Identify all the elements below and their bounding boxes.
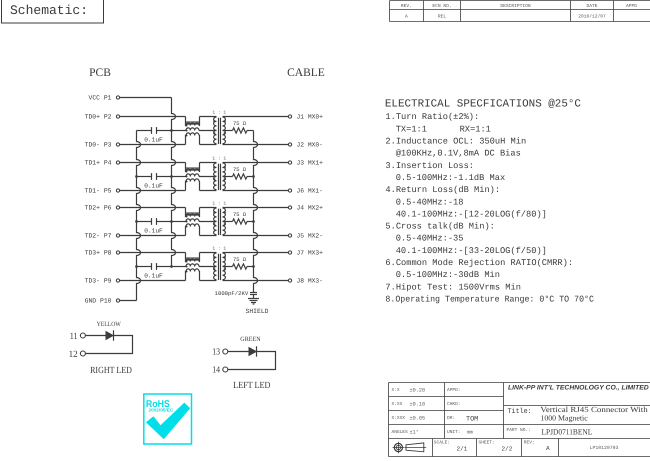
svg-text:X:XXX: X:XXX bbox=[392, 416, 406, 421]
svg-text:TOM: TOM bbox=[466, 415, 478, 423]
common-mode choke core (channel 2) bbox=[186, 167, 199, 170]
svg-text:2.Inductance OCL: 350uH Min: 2.Inductance OCL: 350uH Min bbox=[385, 137, 526, 147]
junction termination bus / resistor bbox=[252, 175, 255, 178]
svg-text:13: 13 bbox=[212, 348, 220, 358]
svg-text:2/2: 2/2 bbox=[502, 446, 513, 453]
svg-text:±0.05: ±0.05 bbox=[410, 415, 426, 421]
RoHS logo box bbox=[144, 394, 192, 444]
wire P-side bottom (channel 1) bbox=[120, 144, 186, 146]
svg-text:14: 14 bbox=[212, 366, 220, 376]
svg-text:CHKD:: CHKD: bbox=[447, 401, 461, 407]
svg-text:5.Cross talk(dB Min):: 5.Cross talk(dB Min): bbox=[385, 222, 494, 232]
choke winding top (channel 2) bbox=[185, 163, 188, 172]
junction vcc bus / center tap bbox=[170, 220, 173, 223]
svg-text:REV.: REV. bbox=[401, 3, 412, 9]
wire choke to transformer center tap (channel 3) bbox=[199, 221, 217, 223]
junction vcc bus / center tap bbox=[170, 175, 173, 178]
resistor 75 Ohm (channel 4) bbox=[233, 264, 248, 269]
capacitor 0.1uF (channel 1) bbox=[151, 127, 153, 134]
capacitor 0.1uF (channel 3) bbox=[151, 218, 153, 225]
wire secondary center tap to resistor (channel 3) bbox=[223, 221, 233, 223]
resistor 75 Ohm (channel 2) bbox=[233, 174, 248, 179]
svg-text:±1°: ±1° bbox=[410, 429, 419, 435]
wire cap to vcc bus (channel 3) bbox=[157, 221, 172, 223]
pin P10 terminal bbox=[116, 299, 119, 302]
pin J2 terminal (MX0-) bbox=[288, 143, 291, 146]
transformer polarity dots (channel 2) bbox=[213, 166, 215, 168]
wire P-side top (channel 3) bbox=[120, 207, 186, 209]
svg-text:LINK-PP INT’L TECHNOLOGY CO.,: LINK-PP INT’L TECHNOLOGY CO., LIMITED bbox=[508, 384, 649, 391]
svg-text:DESCRIPTION: DESCRIPTION bbox=[500, 3, 531, 9]
choke polarity dots (channel 4) bbox=[185, 260, 187, 262]
pin J6 terminal (MX1-) bbox=[288, 189, 291, 192]
svg-text:1 : 1: 1 : 1 bbox=[212, 201, 226, 207]
svg-text:DATE: DATE bbox=[586, 3, 597, 9]
svg-text:J7 MX3+: J7 MX3+ bbox=[297, 250, 324, 257]
wire choke to transformer bottom (channel 4) bbox=[200, 280, 217, 282]
transformer secondary winding (channel 2) bbox=[223, 163, 226, 190]
transformer primary winding (channel 3) bbox=[214, 208, 217, 235]
junction termination bus / resistor bbox=[252, 220, 255, 223]
svg-text:SHEET:: SHEET: bbox=[479, 440, 495, 446]
svg-text:40.1-100MHz:-[33-20LOG(f/50)]: 40.1-100MHz:-[33-20LOG(f/50)] bbox=[396, 246, 547, 256]
svg-text:REL: REL bbox=[438, 13, 447, 19]
svg-text:±0.20: ±0.20 bbox=[410, 387, 426, 393]
svg-text:YELLOW: YELLOW bbox=[97, 321, 122, 328]
wire cap to vcc bus (channel 2) bbox=[157, 176, 172, 178]
pin P1 terminal bbox=[116, 96, 119, 99]
wire choke to transformer center tap (channel 1) bbox=[199, 130, 217, 132]
svg-text:APPD:: APPD: bbox=[447, 388, 461, 393]
transformer polarity dots (channel 1) bbox=[213, 120, 215, 122]
vcc center-tap bus (vertical, hops over pin wires) bbox=[172, 98, 176, 267]
svg-text:DR:: DR: bbox=[447, 416, 455, 421]
revision table bbox=[390, 1, 650, 22]
svg-text:1 : 1: 1 : 1 bbox=[212, 156, 226, 162]
pin P6 terminal bbox=[116, 206, 119, 209]
svg-text:1 : 1: 1 : 1 bbox=[212, 246, 226, 252]
pin P3 terminal bbox=[116, 143, 119, 146]
pin J7 terminal (MX3+) bbox=[288, 251, 291, 254]
pin P9 terminal bbox=[116, 279, 119, 282]
wire P-side bottom (channel 4) bbox=[120, 280, 186, 282]
svg-text:Schematic:: Schematic: bbox=[10, 3, 88, 18]
wire choke to transformer bottom (channel 1) bbox=[200, 144, 217, 146]
svg-text:TD1+ P4: TD1+ P4 bbox=[85, 160, 112, 167]
svg-text:TX=1:1: TX=1:1 bbox=[396, 124, 427, 134]
svg-text:GND P10: GND P10 bbox=[85, 298, 112, 305]
svg-text:0.1uF: 0.1uF bbox=[144, 183, 163, 190]
choke winding top (channel 3) bbox=[185, 208, 188, 217]
svg-text:0.1uF: 0.1uF bbox=[144, 228, 163, 235]
svg-text:75 Ω: 75 Ω bbox=[233, 167, 247, 173]
pin J3 terminal (MX1+) bbox=[288, 161, 291, 164]
svg-text:J5 MX2-: J5 MX2- bbox=[297, 233, 323, 240]
wire choke to transformer top (channel 2) bbox=[200, 162, 217, 164]
common-mode choke core (channel 1) bbox=[186, 121, 199, 124]
junction gnd bus / cap line bbox=[135, 175, 138, 178]
pin P4 terminal bbox=[116, 161, 119, 164]
transformer core (channel 3) bbox=[218, 209, 220, 235]
junction vcc bus / center tap bbox=[170, 129, 173, 132]
pin J8 terminal (MX3-) bbox=[288, 279, 291, 282]
svg-text:A: A bbox=[405, 13, 408, 19]
svg-text:J4 MX2+: J4 MX2+ bbox=[297, 205, 324, 212]
wire P-side bottom (channel 3) bbox=[120, 235, 186, 237]
svg-text:VCC P1: VCC P1 bbox=[88, 95, 111, 102]
wire choke to transformer bottom (channel 3) bbox=[200, 235, 217, 237]
wire cap to gnd bus (channel 1) bbox=[137, 130, 152, 132]
svg-text:±0.10: ±0.10 bbox=[410, 401, 426, 407]
svg-text:TD3+ P8: TD3+ P8 bbox=[85, 250, 112, 257]
svg-text:0.5-100MHz:-30dB Min: 0.5-100MHz:-30dB Min bbox=[396, 270, 500, 280]
wire resistor to termination bus (channel 2) bbox=[247, 176, 254, 178]
svg-text:J3 MX1+: J3 MX1+ bbox=[297, 160, 324, 167]
wire resistor to termination bus (channel 4) bbox=[247, 266, 254, 268]
wire secondary top to J pin (channel 4) bbox=[223, 252, 289, 254]
svg-text:75 Ω: 75 Ω bbox=[233, 257, 247, 263]
common-mode choke core (channel 4) bbox=[186, 257, 199, 260]
choke winding top (channel 4) bbox=[185, 253, 188, 262]
pin P8 terminal bbox=[116, 251, 119, 254]
wire center tap line (channel 4) bbox=[172, 266, 187, 268]
svg-text:TD0- P3: TD0- P3 bbox=[85, 142, 112, 149]
transformer polarity dots (channel 3) bbox=[213, 211, 215, 213]
wire cap to shield ground bbox=[253, 295, 255, 299]
Schematic: label box bbox=[2, 0, 104, 23]
svg-text:1000pF/2KV: 1000pF/2KV bbox=[215, 290, 249, 297]
wire resistor to termination bus (channel 1) bbox=[247, 130, 254, 132]
junction termination bus / resistor bbox=[252, 265, 255, 268]
termination bus to shield cap (vertical, hops over J wires) bbox=[254, 131, 258, 293]
choke winding middle (channel 2) bbox=[186, 174, 199, 177]
resistor 75 Ohm (channel 1) bbox=[233, 128, 248, 133]
svg-text:2002/95/EC: 2002/95/EC bbox=[149, 408, 174, 413]
svg-text:ECN NO.: ECN NO. bbox=[432, 3, 451, 9]
wire pin 13 to LED anode bbox=[228, 351, 249, 353]
svg-text:J1 MX0+: J1 MX0+ bbox=[297, 114, 324, 121]
svg-text:1000 Magnetic: 1000 Magnetic bbox=[540, 414, 588, 423]
svg-text:0.1uF: 0.1uF bbox=[144, 137, 163, 144]
svg-text:J6 MX1-: J6 MX1- bbox=[297, 188, 323, 195]
wire GND P10 to gnd bus bbox=[120, 300, 137, 302]
svg-text:GREEN: GREEN bbox=[240, 336, 261, 343]
svg-text:RX=1:1: RX=1:1 bbox=[460, 124, 491, 134]
choke winding bottom (channel 4) bbox=[185, 272, 188, 281]
svg-text:Title:: Title: bbox=[508, 407, 532, 416]
junction gnd bus / cap line bbox=[135, 265, 138, 268]
svg-text:J2 MX0-: J2 MX0- bbox=[297, 142, 323, 149]
svg-text:A: A bbox=[546, 445, 550, 452]
transformer primary winding (channel 1) bbox=[214, 117, 217, 144]
transformer core (channel 1) bbox=[218, 118, 220, 144]
LED D2 green (diode) bbox=[249, 347, 257, 355]
wire VCC P1 to vcc bus bbox=[120, 97, 172, 99]
svg-text:ANGLES: ANGLES bbox=[392, 429, 409, 435]
wire cap to gnd bus (channel 2) bbox=[137, 176, 152, 178]
wire secondary bottom to J pin (channel 2) bbox=[223, 190, 289, 192]
svg-text:X:XX: X:XX bbox=[392, 402, 403, 407]
svg-text:LPJD0711BENL: LPJD0711BENL bbox=[542, 428, 593, 437]
wire choke to transformer top (channel 3) bbox=[200, 207, 217, 209]
wire center tap line (channel 3) bbox=[172, 221, 187, 223]
wire cap to gnd bus (channel 3) bbox=[137, 221, 152, 223]
wire P-side top (channel 2) bbox=[120, 162, 186, 164]
svg-text:TD0+ P2: TD0+ P2 bbox=[85, 114, 112, 121]
wire secondary top to J pin (channel 1) bbox=[223, 116, 289, 118]
svg-text:4.Return Loss(dB Min):: 4.Return Loss(dB Min): bbox=[385, 185, 500, 195]
wire pin 11 to LED anode bbox=[85, 335, 105, 337]
svg-text:UNIT:: UNIT: bbox=[447, 430, 461, 435]
wire choke to transformer bottom (channel 2) bbox=[200, 190, 217, 192]
transformer secondary winding (channel 1) bbox=[223, 117, 226, 144]
third-angle projection symbol bbox=[394, 443, 402, 451]
wire secondary center tap to resistor (channel 4) bbox=[223, 266, 233, 268]
svg-text:LP10120703: LP10120703 bbox=[590, 445, 619, 451]
transformer polarity dots (channel 4) bbox=[213, 256, 215, 258]
wire secondary top to J pin (channel 2) bbox=[223, 162, 289, 164]
LED D1 yellow (diode) bbox=[106, 331, 114, 339]
svg-text:CABLE: CABLE bbox=[287, 67, 325, 79]
wire secondary center tap to resistor (channel 2) bbox=[223, 176, 233, 178]
svg-text:J8 MX3-: J8 MX3- bbox=[297, 278, 323, 285]
svg-text:0.5-40MHz:-18: 0.5-40MHz:-18 bbox=[396, 197, 464, 207]
svg-text:8.Operating Temperature Range:: 8.Operating Temperature Range: 0°C TO 70… bbox=[385, 294, 594, 304]
common-mode choke core (channel 3) bbox=[186, 212, 199, 215]
pin J4 terminal (MX2+) bbox=[288, 206, 291, 209]
svg-text:TD3- P9: TD3- P9 bbox=[85, 278, 112, 285]
wire secondary bottom to J pin (channel 3) bbox=[223, 235, 289, 237]
wire LED cathode loop to pin 14 bbox=[228, 352, 276, 370]
wire P-side top (channel 4) bbox=[120, 252, 186, 254]
choke winding bottom (channel 1) bbox=[185, 136, 188, 145]
svg-text:2010/12/07: 2010/12/07 bbox=[578, 13, 606, 19]
choke winding middle (channel 3) bbox=[186, 219, 199, 222]
svg-text:@100KHz,0.1V,8mA DC Bias: @100KHz,0.1V,8mA DC Bias bbox=[396, 149, 521, 159]
wire resistor to termination bus (channel 3) bbox=[247, 221, 254, 223]
svg-text:X:X: X:X bbox=[392, 388, 400, 393]
wire P-side bottom (channel 2) bbox=[120, 190, 186, 192]
choke winding middle (channel 1) bbox=[186, 128, 199, 131]
wire cap to vcc bus (channel 4) bbox=[157, 266, 172, 268]
svg-text:11: 11 bbox=[70, 332, 78, 342]
wire choke to transformer center tap (channel 2) bbox=[199, 176, 217, 178]
svg-text:RIGHT LED: RIGHT LED bbox=[90, 366, 132, 376]
resistor 75 Ohm (channel 3) bbox=[233, 219, 248, 224]
wire choke to transformer top (channel 1) bbox=[200, 116, 217, 118]
svg-text:REV:: REV: bbox=[524, 441, 535, 446]
wire secondary bottom to J pin (channel 4) bbox=[223, 280, 289, 282]
choke winding middle (channel 4) bbox=[186, 264, 199, 267]
svg-text:APPD: APPD bbox=[626, 3, 637, 9]
wire cap to gnd bus (channel 4) bbox=[137, 266, 152, 268]
title block frame bbox=[389, 383, 650, 457]
svg-text:PART NO.:: PART NO.: bbox=[507, 427, 531, 433]
svg-text:7.Hipot Test: 1500Vrms Min: 7.Hipot Test: 1500Vrms Min bbox=[385, 282, 521, 292]
choke polarity dots (channel 3) bbox=[185, 215, 187, 217]
svg-text:6.Common Mode Rejection RATIO(: 6.Common Mode Rejection RATIO(CMRR): bbox=[385, 258, 573, 268]
svg-text:3.Insertion Loss:: 3.Insertion Loss: bbox=[385, 161, 474, 171]
choke polarity dots (channel 1) bbox=[185, 124, 187, 126]
wire center tap line (channel 1) bbox=[172, 130, 187, 132]
svg-text:1.Turn Ratio(±2%):: 1.Turn Ratio(±2%): bbox=[385, 112, 479, 122]
svg-text:mm: mm bbox=[467, 429, 473, 435]
RoHS checkmark bbox=[146, 403, 190, 440]
capacitor 0.1uF (channel 4) bbox=[151, 263, 153, 270]
wire secondary center tap to resistor (channel 1) bbox=[223, 130, 233, 132]
transformer secondary winding (channel 3) bbox=[223, 208, 226, 235]
svg-text:2/1: 2/1 bbox=[457, 446, 468, 453]
choke winding bottom (channel 2) bbox=[185, 182, 188, 191]
pin J5 terminal (MX2-) bbox=[288, 234, 291, 237]
svg-text:75 Ω: 75 Ω bbox=[233, 121, 247, 127]
capacitor 1000pF/2KV bbox=[250, 292, 257, 294]
choke winding top (channel 1) bbox=[185, 117, 188, 126]
junction vcc bus / center tap bbox=[170, 265, 173, 268]
svg-text:ELECTRICAL SPECFICATIONS @25°C: ELECTRICAL SPECFICATIONS @25°C bbox=[385, 99, 582, 111]
wire cap to vcc bus (channel 1) bbox=[157, 130, 172, 132]
pin J1 terminal (MX0+) bbox=[288, 115, 291, 118]
svg-text:0.5-40MHz:-35: 0.5-40MHz:-35 bbox=[396, 234, 464, 244]
svg-text:1 : 1: 1 : 1 bbox=[212, 110, 226, 116]
wire secondary bottom to J pin (channel 1) bbox=[223, 144, 289, 146]
svg-text:TD2+ P6: TD2+ P6 bbox=[85, 205, 112, 212]
wire P-side top (channel 1) bbox=[120, 116, 186, 118]
svg-text:LEFT LED: LEFT LED bbox=[233, 381, 270, 391]
choke winding bottom (channel 3) bbox=[185, 227, 188, 236]
transformer core (channel 2) bbox=[218, 164, 220, 190]
capacitor 0.1uF (channel 2) bbox=[151, 173, 153, 180]
svg-text:40.1-100MHz:-[12-20LOG(f/80)]: 40.1-100MHz:-[12-20LOG(f/80)] bbox=[396, 209, 547, 219]
svg-text:TD1- P5: TD1- P5 bbox=[85, 188, 112, 195]
pin P2 terminal bbox=[116, 115, 119, 118]
svg-text:75 Ω: 75 Ω bbox=[233, 212, 247, 218]
wire choke to transformer top (channel 4) bbox=[200, 252, 217, 254]
choke polarity dots (channel 2) bbox=[185, 170, 187, 172]
shield ground symbol bbox=[248, 298, 259, 300]
svg-text:SCALE:: SCALE: bbox=[434, 440, 450, 446]
gnd bus (vertical, hops over pin wires) bbox=[137, 131, 141, 301]
junction gnd bus / cap line bbox=[135, 220, 138, 223]
transformer primary winding (channel 2) bbox=[214, 163, 217, 190]
svg-text:0.5-100MHz:-1.1dB Max: 0.5-100MHz:-1.1dB Max bbox=[396, 173, 505, 183]
pin P7 terminal bbox=[116, 234, 119, 237]
transformer primary winding (channel 4) bbox=[214, 253, 217, 280]
wire LED cathode loop to pin 12 bbox=[85, 336, 132, 354]
svg-text:TD2- P7: TD2- P7 bbox=[85, 233, 112, 240]
transformer core (channel 4) bbox=[218, 254, 220, 280]
svg-text:SHIELD: SHIELD bbox=[245, 308, 268, 315]
svg-text:12: 12 bbox=[69, 350, 78, 360]
wire choke to transformer center tap (channel 4) bbox=[199, 266, 217, 268]
svg-text:0.1uF: 0.1uF bbox=[144, 273, 163, 280]
transformer secondary winding (channel 4) bbox=[223, 253, 226, 280]
svg-text:PCB: PCB bbox=[89, 67, 111, 79]
wire center tap line (channel 2) bbox=[172, 176, 187, 178]
pin P5 terminal bbox=[116, 189, 119, 192]
wire secondary top to J pin (channel 3) bbox=[223, 207, 289, 209]
